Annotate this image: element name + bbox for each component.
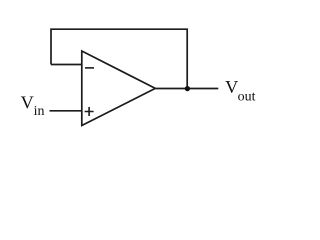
svg-text:V: V bbox=[21, 93, 34, 113]
op-amp non-inverting input marker (+) bbox=[85, 107, 94, 116]
wire: op-amp output to Vout bbox=[155, 88, 218, 90]
op-amp inverting input marker (-) bbox=[85, 67, 94, 69]
op-amp U1 bbox=[82, 51, 156, 126]
wire: feedback loop from output node up and over to inverting input bbox=[51, 29, 187, 88]
svg-text:out: out bbox=[238, 90, 256, 105]
wire: Vin to non-inverting input bbox=[50, 110, 82, 112]
svg-text:in: in bbox=[34, 104, 45, 119]
junction: output node bbox=[185, 86, 190, 91]
wire: inverting input stub bbox=[51, 64, 82, 66]
svg-text:V: V bbox=[225, 77, 238, 97]
